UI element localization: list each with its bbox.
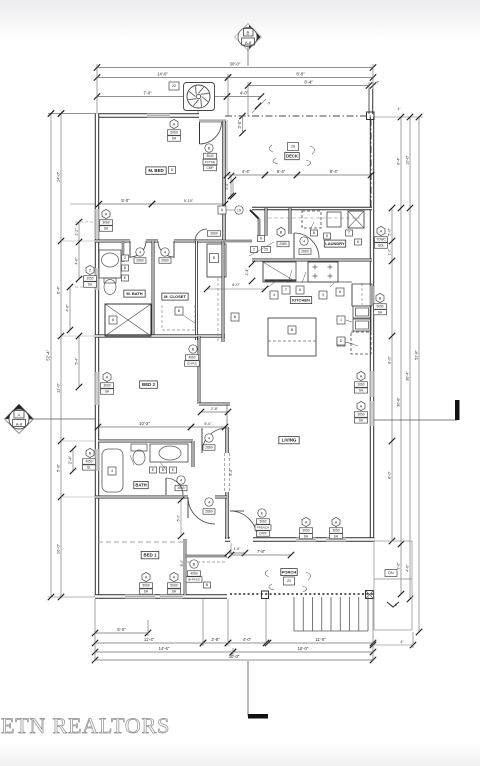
svg-text:6'-4": 6'-4" <box>56 285 61 294</box>
svg-text:8'-4": 8'-4" <box>330 169 339 174</box>
svg-text:8'-4": 8'-4" <box>304 79 313 84</box>
svg-text:BATH: BATH <box>135 482 146 487</box>
svg-text:6'-0": 6'-0" <box>229 468 233 476</box>
svg-text:PCTND: PCTND <box>205 160 216 164</box>
svg-text:4'-4": 4'-4" <box>242 169 251 174</box>
svg-text:0: 0 <box>267 101 271 105</box>
svg-text:8'-0": 8'-0" <box>296 71 305 76</box>
svg-text:11'-0": 11'-0" <box>315 637 326 642</box>
svg-text:BED 2: BED 2 <box>142 382 155 387</box>
svg-text:FRENCH: FRENCH <box>257 526 270 530</box>
svg-text:2480: 2480 <box>279 242 287 246</box>
svg-text:7'-8": 7'-8" <box>257 549 266 554</box>
svg-text:5'-4": 5'-4" <box>277 169 286 174</box>
svg-text:5'-0": 5'-0" <box>177 514 181 522</box>
svg-text:4050: 4050 <box>85 460 92 464</box>
svg-text:D: D <box>340 339 343 343</box>
svg-text:5'-0": 5'-0" <box>117 627 126 632</box>
svg-text:3060: 3060 <box>102 221 110 225</box>
svg-text:4: 4 <box>111 469 113 473</box>
svg-text:2: 2 <box>253 248 255 252</box>
svg-text:B: B <box>192 347 195 351</box>
svg-text:SH: SH <box>104 227 109 231</box>
svg-text:4": 4" <box>398 107 401 111</box>
svg-text:30'-0": 30'-0" <box>230 61 241 66</box>
svg-text:25: 25 <box>264 248 268 252</box>
svg-text:KITCHEN: KITCHEN <box>292 297 310 302</box>
svg-text:2'-0": 2'-0" <box>237 120 242 129</box>
svg-text:8: 8 <box>339 290 341 294</box>
svg-text:M. BED: M. BED <box>148 168 163 173</box>
svg-text:5'-0": 5'-0" <box>204 422 212 426</box>
svg-text:DN: DN <box>388 571 394 575</box>
svg-text:PORCH: PORCH <box>282 569 297 574</box>
svg-text:36'-4": 36'-4" <box>406 371 410 381</box>
svg-text:5040: 5040 <box>206 154 213 158</box>
svg-text:A-8: A-8 <box>245 40 252 45</box>
svg-text:14'-0": 14'-0" <box>56 171 61 182</box>
svg-text:SL: SL <box>87 466 91 470</box>
svg-text:14'-0": 14'-0" <box>157 71 168 76</box>
svg-text:8: 8 <box>299 288 301 292</box>
svg-text:5060: 5060 <box>142 584 150 588</box>
svg-text:8: 8 <box>326 234 328 238</box>
svg-text:DR/F: DR/F <box>259 532 266 536</box>
svg-text:10'-2": 10'-2" <box>139 421 150 426</box>
svg-text:20: 20 <box>287 579 291 583</box>
svg-text:EI-PAS: EI-PAS <box>187 362 197 366</box>
svg-text:2660: 2660 <box>205 446 213 450</box>
svg-text:4: 4 <box>208 500 210 504</box>
svg-text:30'-0": 30'-0" <box>229 654 240 659</box>
svg-text:2660: 2660 <box>210 232 218 236</box>
svg-text:8'-0": 8'-0" <box>180 559 184 567</box>
svg-text:2660: 2660 <box>136 259 144 263</box>
svg-text:A-8: A-8 <box>16 421 23 426</box>
svg-text:52'-8": 52'-8" <box>415 350 419 360</box>
svg-text:SH: SH <box>378 310 383 314</box>
svg-text:A: A <box>380 229 383 233</box>
svg-text:7'-0": 7'-0" <box>143 90 152 95</box>
svg-text:2050: 2050 <box>86 277 93 281</box>
svg-text:M. CLOSET: M. CLOSET <box>164 294 186 299</box>
svg-text:CMP: CMP <box>206 166 213 170</box>
svg-text:4: 4 <box>164 250 166 254</box>
svg-text:D: D <box>171 168 174 172</box>
svg-text:5'-0": 5'-0" <box>388 228 392 236</box>
svg-text:4'-0": 4'-0" <box>75 257 79 265</box>
svg-text:2'-4": 2'-4" <box>68 455 73 464</box>
svg-text:6: 6 <box>112 318 114 322</box>
svg-text:SH: SH <box>304 534 309 538</box>
svg-text:B: B <box>89 451 92 455</box>
svg-text:SH: SH <box>88 283 93 287</box>
svg-text:10'-0": 10'-0" <box>406 155 410 165</box>
svg-text:3060: 3060 <box>103 384 111 388</box>
svg-text:8'-0": 8'-0" <box>388 356 392 364</box>
svg-text:26: 26 <box>291 145 295 149</box>
svg-text:11'-0": 11'-0" <box>56 382 61 392</box>
svg-text:B: B <box>247 31 250 36</box>
svg-text:2'-8": 2'-8" <box>211 637 220 642</box>
svg-text:11'-4": 11'-4" <box>144 637 155 642</box>
svg-text:2660: 2660 <box>301 250 309 254</box>
svg-text:30'-8": 30'-8" <box>397 397 401 407</box>
svg-text:B: B <box>379 296 382 300</box>
svg-text:SH: SH <box>144 590 149 594</box>
svg-text:GDL: GDL <box>378 244 385 248</box>
svg-text:LAUNDRY: LAUNDRY <box>325 241 345 246</box>
svg-text:4'-0": 4'-0" <box>66 304 70 312</box>
svg-text:1: 1 <box>340 318 342 322</box>
svg-text:8'-0": 8'-0" <box>388 471 392 479</box>
svg-text:2'-4": 2'-4" <box>245 268 249 276</box>
svg-text:4": 4" <box>376 81 379 85</box>
svg-text:2: 2 <box>89 268 91 272</box>
svg-text:52'-4": 52'-4" <box>46 349 51 360</box>
svg-text:2660: 2660 <box>161 259 169 263</box>
svg-text:BED 1: BED 1 <box>144 553 157 558</box>
svg-text:DECK: DECK <box>286 153 298 158</box>
svg-text:3050: 3050 <box>302 529 309 533</box>
svg-text:A: A <box>305 520 308 524</box>
svg-text:A: A <box>335 520 338 524</box>
svg-text:9: 9 <box>395 603 397 607</box>
svg-text:A: A <box>145 575 148 579</box>
svg-text:2: 2 <box>124 256 126 260</box>
svg-text:5060: 5060 <box>259 520 266 524</box>
svg-text:A: A <box>106 375 109 379</box>
svg-text:4: 4 <box>180 478 182 482</box>
svg-text:A: A <box>18 413 21 418</box>
svg-text:6'-0": 6'-0" <box>232 283 240 287</box>
svg-text:SH: SH <box>359 389 364 393</box>
svg-text:2'-2": 2'-2" <box>75 228 79 236</box>
svg-text:6'-4": 6'-4" <box>397 157 401 165</box>
svg-text:M. BATH: M. BATH <box>126 291 142 296</box>
svg-text:E: E <box>261 511 264 515</box>
svg-text:3050: 3050 <box>332 529 339 533</box>
svg-text:A: A <box>173 122 176 126</box>
svg-text:B: B <box>193 562 196 566</box>
svg-text:2660: 2660 <box>205 510 213 514</box>
svg-text:10'-0": 10'-0" <box>56 543 61 554</box>
svg-text:4: 4 <box>139 250 141 254</box>
svg-text:5060: 5060 <box>170 131 178 135</box>
svg-text:SH: SH <box>172 590 177 594</box>
svg-text:B: B <box>208 146 211 150</box>
svg-text:3'-6": 3'-6" <box>397 562 401 570</box>
svg-text:3060: 3060 <box>357 413 364 417</box>
svg-text:5'-4": 5'-4" <box>75 357 79 365</box>
svg-text:SH: SH <box>359 419 364 423</box>
svg-text:4'-0": 4'-0" <box>243 637 252 642</box>
svg-text:16'-0": 16'-0" <box>298 646 309 651</box>
svg-text:4060: 4060 <box>188 356 195 360</box>
svg-text:14'-6": 14'-6" <box>159 646 170 651</box>
svg-text:5'-8": 5'-8" <box>56 463 61 472</box>
svg-text:BI-PASS: BI-PASS <box>188 578 200 582</box>
svg-text:SH: SH <box>172 137 177 141</box>
svg-text:SH: SH <box>334 534 339 538</box>
svg-text:ETN REALTORS: ETN REALTORS <box>1 713 170 738</box>
svg-text:SH: SH <box>105 390 110 394</box>
svg-text:A: A <box>105 212 108 216</box>
svg-text:4: 4 <box>303 239 305 243</box>
svg-text:2'-8": 2'-8" <box>211 407 219 411</box>
svg-text:4'-0": 4'-0" <box>240 90 249 95</box>
svg-text:4: 4 <box>273 293 275 297</box>
svg-text:4: 4 <box>208 436 210 440</box>
svg-text:3060: 3060 <box>357 383 364 387</box>
svg-text:A: A <box>360 404 363 408</box>
svg-text:A: A <box>173 575 176 579</box>
svg-text:5'-0": 5'-0" <box>121 198 130 203</box>
svg-text:22: 22 <box>172 84 176 88</box>
svg-text:5050: 5050 <box>376 305 383 309</box>
svg-text:5'-10": 5'-10" <box>184 199 194 203</box>
svg-text:LIVING: LIVING <box>282 438 297 443</box>
svg-text:A: A <box>360 374 363 378</box>
svg-text:4'-0": 4'-0" <box>406 564 410 572</box>
svg-text:TOWC: TOWC <box>376 238 386 242</box>
svg-text:4": 4" <box>400 640 404 644</box>
svg-text:1'-0": 1'-0" <box>388 248 392 256</box>
svg-text:B: B <box>280 230 283 234</box>
svg-text:3: 3 <box>322 293 324 297</box>
svg-text:6: 6 <box>357 240 359 244</box>
svg-text:1'-0": 1'-0" <box>234 547 242 551</box>
svg-text:5060: 5060 <box>170 584 178 588</box>
svg-text:4060: 4060 <box>190 572 198 576</box>
svg-text:19: 19 <box>237 208 241 212</box>
